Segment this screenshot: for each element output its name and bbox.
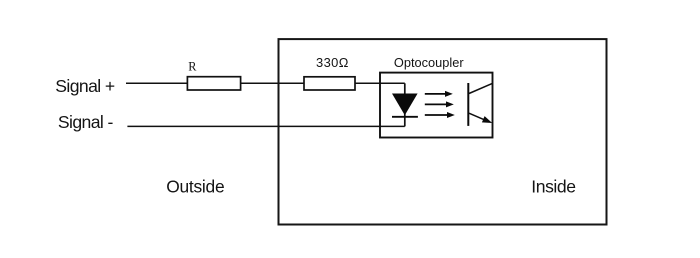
wire R to 330 ohm resistor (241, 82, 304, 84)
LED D1 (anode triangle) (392, 94, 418, 116)
svg-text:Outside: Outside (166, 176, 224, 196)
svg-text:Signal -: Signal - (58, 112, 114, 132)
resistor R (187, 77, 240, 90)
enclosure box (Inside) (279, 39, 607, 224)
svg-text:Optocoupler: Optocoupler (394, 55, 464, 70)
phototransistor Q1 emitter with arrow (469, 113, 492, 123)
svg-text:Inside: Inside (531, 177, 575, 197)
phototransistor Q1 base bar (467, 83, 469, 126)
light arrow 3 (425, 112, 455, 118)
light arrow 2 (425, 101, 454, 107)
svg-text:330Ω: 330Ω (316, 55, 349, 70)
svg-text:Signal +: Signal + (55, 76, 115, 96)
light arrow 1 (425, 91, 453, 97)
wire Signal- to optocoupler LED cathode (127, 125, 404, 127)
svg-text:R: R (188, 60, 197, 74)
LED lead (vertical) (404, 83, 406, 126)
phototransistor Q1 collector (469, 83, 492, 93)
resistor 330 ohm (304, 77, 355, 90)
wire 330 ohm to optocoupler LED anode (355, 82, 405, 84)
optocoupler box (380, 73, 493, 138)
LED D1 cathode bar (392, 116, 418, 118)
wire Signal+ to resistor R (126, 82, 187, 84)
